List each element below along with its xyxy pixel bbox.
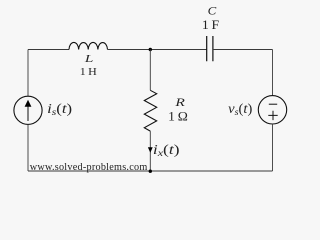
- svg-text:L: L: [83, 53, 93, 65]
- wire middle branch lower (resistor to bottom): [149, 131, 151, 171]
- node junction bottom: [149, 170, 152, 173]
- minus sign: [269, 103, 277, 105]
- current source arrow: [27, 106, 29, 122]
- svg-text:www.solved-problems.com: www.solved-problems.com: [30, 162, 148, 173]
- wire top-left segment (corner to inductor): [28, 49, 69, 51]
- current arrow ix(t) head: [148, 147, 153, 152]
- svg-text:1 H: 1 H: [80, 66, 97, 78]
- svg-text:vs(t): vs(t): [228, 101, 252, 118]
- wire top-middle segment (inductor to capacitor): [108, 49, 207, 51]
- wire top-right segment (capacitor to corner): [213, 49, 273, 51]
- voltage source vs(t) circle: [258, 96, 286, 124]
- svg-text:1 F: 1 F: [202, 18, 219, 32]
- wire left side lower: [27, 124, 29, 171]
- svg-text:ix(t): ix(t): [153, 142, 180, 159]
- node junction top: [149, 48, 152, 51]
- wire middle branch upper (junction to resistor): [149, 50, 151, 91]
- svg-text:1 Ω: 1 Ω: [168, 110, 188, 124]
- wire bottom: [28, 170, 273, 172]
- svg-text:R: R: [174, 95, 186, 109]
- current source is(t) circle: [14, 96, 42, 124]
- plus sign: [268, 111, 277, 120]
- wire right side lower: [272, 124, 274, 171]
- capacitor C plates: [207, 36, 213, 61]
- svg-text:is(t): is(t): [47, 101, 72, 118]
- wire right side upper: [272, 50, 274, 96]
- resistor R zigzag: [144, 90, 156, 131]
- wire left side upper: [27, 50, 29, 97]
- inductor L1 coil: [69, 42, 108, 49]
- svg-text:C: C: [208, 5, 217, 17]
